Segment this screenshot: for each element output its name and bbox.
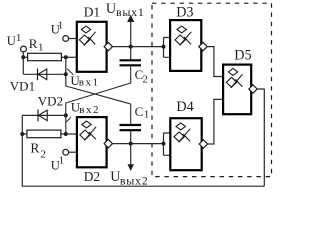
svg-text:U: U — [106, 1, 116, 17]
gate D1 — [77, 22, 107, 72]
capacitor C2 — [120, 59, 142, 61]
wire rail to R2 — [22, 133, 27, 135]
arrow Uvyh2 — [130, 144, 132, 165]
label Uvx2 leader — [66, 117, 71, 122]
node dot D4 input — [162, 142, 166, 146]
wire output1 to C2 — [130, 47, 132, 61]
wire D5 output feedback — [257, 89, 264, 186]
wire C2 to Uvx2 diagonal — [66, 65, 131, 134]
wire C1 to output2 — [130, 130, 132, 143]
wire diagonal Uvx1 to C1 — [66, 86, 131, 125]
wire U1 terminal to VD1 row (left vertical) — [22, 52, 24, 74]
node dot VD1 junction — [64, 72, 68, 76]
terminal U1 at D2 input 2 — [63, 149, 69, 155]
resistor R1 — [28, 53, 62, 60]
svg-text:2: 2 — [40, 148, 46, 160]
inversion bubble D4 — [199, 140, 207, 148]
svg-text:1: 1 — [58, 20, 64, 32]
wire VD2 row — [22, 114, 66, 116]
amp symbol D4 — [174, 123, 190, 143]
terminal U1 top-left — [21, 46, 27, 52]
node dot output1 — [129, 45, 133, 49]
input bracket D3 — [164, 38, 171, 58]
svg-text:U: U — [7, 34, 16, 48]
wire R1 to D1 input 2 — [62, 56, 77, 58]
wire D2 output to D4 — [113, 143, 164, 145]
svg-text:1: 1 — [16, 32, 22, 44]
wire U1 to D1 input 1 — [69, 38, 77, 40]
svg-text:вх2: вх2 — [79, 104, 100, 116]
inversion bubble D5 — [249, 85, 257, 93]
svg-text:вых1: вых1 — [116, 5, 145, 19]
svg-text:D5: D5 — [234, 48, 251, 64]
wire D1 output to D3 — [113, 46, 164, 48]
wire vertical Uvx1 node down — [65, 57, 67, 86]
node dot output2 — [129, 142, 133, 146]
diode VD1 — [37, 69, 39, 81]
svg-text:D3: D3 — [176, 4, 193, 20]
wire node to R1 — [23, 56, 28, 58]
svg-text:D2: D2 — [84, 169, 101, 184]
svg-text:VD1: VD1 — [10, 78, 35, 93]
node dot U1/R1 — [21, 55, 25, 59]
terminal U1 at D1 input 1 — [63, 36, 69, 42]
diode VD2 — [37, 110, 39, 122]
gate D5 — [223, 65, 251, 115]
inversion bubble D2 — [104, 139, 112, 147]
svg-text:R: R — [30, 141, 39, 156]
svg-text:вх1: вх1 — [79, 77, 100, 89]
dashed box DD chip boundary — [152, 3, 272, 176]
svg-text:вых2: вых2 — [120, 173, 149, 187]
amp symbol D1 — [79, 26, 95, 46]
gate D2 — [77, 117, 107, 167]
svg-text:1: 1 — [38, 42, 44, 54]
node dot VD2 junction — [64, 113, 68, 117]
input bracket D4 — [164, 133, 171, 155]
capacitor C1 — [120, 124, 142, 126]
inversion bubble D3 — [199, 42, 207, 50]
node dot Uvx2 — [64, 132, 68, 136]
node dot Uvx1 — [64, 55, 68, 59]
svg-text:C: C — [135, 104, 144, 119]
svg-text:D1: D1 — [84, 4, 101, 19]
node dot D3 input — [162, 45, 166, 49]
svg-text:1: 1 — [59, 155, 65, 167]
svg-text:2: 2 — [142, 73, 148, 85]
amp symbol D3 — [175, 26, 191, 46]
wire R2 to D2 input 1 — [61, 133, 77, 135]
inversion bubble D1 — [104, 42, 112, 50]
svg-text:R: R — [29, 36, 38, 51]
gate D4 — [170, 118, 201, 170]
arrow Uvyh1 — [130, 22, 132, 47]
label Uvx1 leader — [67, 69, 73, 75]
wire D4 output to D5 — [208, 99, 224, 144]
svg-text:VD2: VD2 — [38, 94, 63, 109]
wire U1 to D2 input 2 — [69, 151, 77, 153]
node dot R2 rail — [20, 132, 24, 136]
wire D3 output to D5 — [207, 47, 223, 77]
wire left rail bottom — [22, 115, 264, 186]
resistor R2 — [27, 130, 61, 138]
gate D3 — [170, 20, 201, 71]
svg-text:D4: D4 — [176, 99, 193, 115]
amp symbol D2 — [80, 121, 96, 141]
svg-text:1: 1 — [144, 108, 150, 120]
amp symbol D5 — [226, 68, 242, 88]
wire VD1 row — [23, 73, 66, 75]
